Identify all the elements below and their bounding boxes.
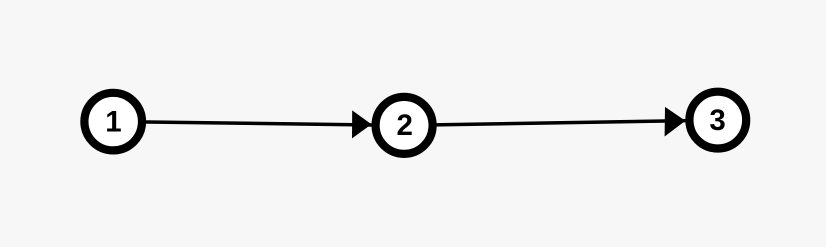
- arrowhead edge 1 to 2: [352, 110, 371, 138]
- node 2: [376, 97, 433, 154]
- svg-text:1: 1: [105, 105, 121, 138]
- svg-text:2: 2: [396, 109, 412, 142]
- node 1: [84, 93, 142, 151]
- svg-text:3: 3: [709, 104, 725, 137]
- wire edge 2 to 3: [404, 120, 718, 125]
- arrowhead edge 2 to 3: [665, 107, 686, 137]
- wire edge 1 to 2: [113, 122, 404, 126]
- node 3: [689, 92, 746, 149]
